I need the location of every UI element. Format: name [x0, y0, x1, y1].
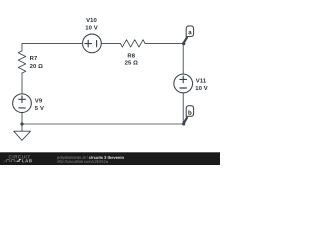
svg-text:nttp://circuitlab.com/c26252a: nttp://circuitlab.com/c26252a	[57, 159, 109, 164]
svg-text:V10: V10	[86, 18, 97, 24]
svg-text:5 V: 5 V	[35, 106, 44, 112]
svg-text:V11: V11	[196, 79, 207, 85]
svg-text:R7: R7	[30, 56, 38, 62]
svg-text:R8: R8	[127, 54, 135, 60]
svg-text:V9: V9	[35, 99, 43, 105]
svg-text:25 Ω: 25 Ω	[125, 61, 139, 67]
svg-text:10 V: 10 V	[85, 25, 98, 31]
svg-text:10 V: 10 V	[195, 86, 208, 92]
svg-text:b: b	[188, 110, 192, 117]
svg-text:20 Ω: 20 Ω	[30, 64, 44, 70]
svg-text:LAB: LAB	[22, 158, 33, 163]
